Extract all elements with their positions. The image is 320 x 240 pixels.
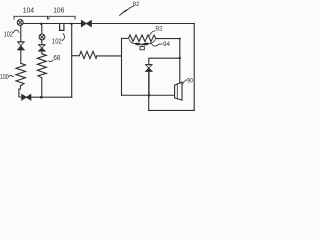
valve V3 (hourglass) bbox=[39, 45, 46, 51]
svg-text:106: 106 bbox=[53, 6, 64, 15]
valve V5 (hourglass) bbox=[146, 65, 152, 72]
node dot J5 bbox=[179, 57, 181, 59]
svg-text:90: 90 bbox=[187, 78, 193, 85]
wire resistor92 left lead bbox=[122, 37, 129, 39]
svg-text:68: 68 bbox=[53, 55, 60, 62]
node dot J7 bbox=[148, 94, 151, 97]
wire B94 right hookup bbox=[149, 40, 155, 44]
squib S102 (open box) bbox=[60, 24, 64, 31]
svg-text:94: 94 bbox=[163, 41, 170, 48]
wire resistor92 right lead bbox=[156, 38, 180, 40]
svg-text:102: 102 bbox=[4, 32, 13, 39]
stem 94 bbox=[141, 44, 143, 46]
valve V2 (bowtie) bbox=[22, 94, 31, 100]
leader 102 left bbox=[13, 30, 19, 33]
resistor R100 bbox=[16, 63, 26, 85]
resistor RH (horizontal mid) bbox=[79, 51, 96, 58]
node dot J4 bbox=[40, 96, 43, 99]
leader 100 bbox=[9, 75, 14, 76]
speaker 90 inner edge bbox=[176, 84, 178, 99]
bracket 106 bbox=[49, 16, 75, 19]
wire column2 top stem bbox=[41, 24, 43, 34]
wire V5 lower stem bbox=[148, 71, 150, 95]
leader 68 bbox=[49, 60, 53, 61]
wire right edge bbox=[193, 24, 195, 111]
wire branch vertical x72 bbox=[71, 24, 73, 97]
wire B94 left hookup bbox=[129, 40, 134, 44]
svg-text:104: 104 bbox=[23, 6, 34, 15]
node dot J2 bbox=[70, 23, 72, 25]
wire column2 bottom stem bbox=[41, 78, 43, 97]
wire resistor R100 bottom jog bbox=[19, 86, 22, 98]
actuator box 94 bbox=[140, 47, 144, 50]
leader 94 bbox=[151, 43, 163, 47]
svg-text:102: 102 bbox=[52, 38, 62, 45]
wire heater lead left bbox=[72, 55, 79, 57]
node dot J6 bbox=[179, 38, 181, 40]
wire lamp L1 stem bbox=[20, 25, 22, 42]
wire valve V1 to resistor bbox=[20, 50, 22, 63]
svg-text:82: 82 bbox=[133, 1, 140, 8]
svg-text:100: 100 bbox=[0, 74, 9, 81]
bracket 104 bbox=[14, 16, 48, 19]
wire bottom left bus bbox=[31, 96, 72, 98]
wire top bus bbox=[23, 23, 194, 25]
wire valve V5 top riser bbox=[149, 58, 180, 64]
leader 102 mid bbox=[62, 34, 64, 41]
arrow 82 bbox=[119, 6, 134, 16]
wire valve-column riser bbox=[148, 71, 150, 110]
lamp L1 (circle-X) bbox=[17, 20, 23, 26]
wire heater lead right bbox=[97, 55, 122, 57]
wire left block vertical bbox=[121, 38, 123, 95]
resistor R92 bbox=[129, 35, 157, 42]
node dot J1 bbox=[40, 23, 42, 25]
valve V4 (bowtie) bbox=[81, 20, 91, 26]
svg-text:92: 92 bbox=[155, 26, 163, 33]
lamp L2 (circle-X) bbox=[39, 34, 45, 40]
wire speaker feed horizontal bbox=[122, 94, 175, 96]
leader 92 bbox=[150, 31, 155, 36]
wire bottom edge bbox=[149, 109, 195, 111]
valve B94 butterfly left wing bbox=[134, 43, 141, 45]
wire lamp L2 to valve bbox=[41, 40, 43, 45]
valve V1 (hourglass) bbox=[18, 42, 25, 50]
leader 90 bbox=[183, 80, 187, 84]
valve B94 butterfly right wing bbox=[142, 43, 150, 45]
speaker 90 bbox=[175, 82, 182, 100]
resistor R68 bbox=[37, 51, 46, 78]
wire speaker drop bbox=[179, 39, 181, 83]
